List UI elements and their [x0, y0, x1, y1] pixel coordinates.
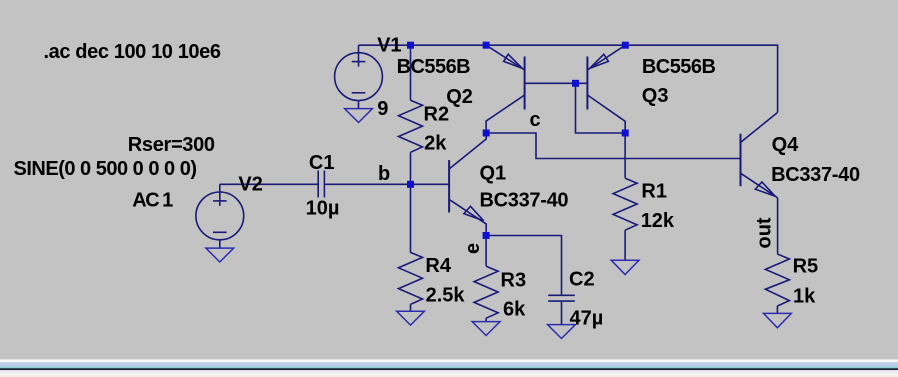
wire node e to C2	[486, 236, 561, 296]
transistor Q2	[486, 45, 524, 133]
svg-text:R4: R4	[425, 255, 451, 277]
svg-text:BC556B: BC556B	[397, 56, 471, 78]
voltage source V1	[335, 45, 383, 108]
svg-text:out: out	[754, 217, 776, 248]
svg-text:Q2: Q2	[446, 86, 473, 108]
svg-text:2k: 2k	[424, 133, 447, 155]
ground (V1)	[345, 109, 373, 123]
svg-text:Q1: Q1	[480, 163, 507, 185]
svg-text:R3: R3	[501, 269, 527, 291]
svg-text:C2: C2	[569, 269, 595, 291]
svg-text:V2: V2	[238, 174, 262, 196]
ground (R3)	[472, 322, 500, 336]
resistor R2	[399, 45, 423, 184]
wire node b to R4	[410, 184, 412, 252]
svg-text:e: e	[462, 243, 484, 254]
junction rail / R2 / V1	[407, 42, 414, 49]
wire Q3 collector to R1	[624, 133, 626, 178]
resistor R1	[613, 178, 637, 260]
wire base tie to Q3 collector	[576, 83, 626, 133]
junction base wire	[572, 80, 579, 87]
wire Q4 emitter to R5 (node out)	[777, 198, 779, 254]
node b junction	[407, 181, 414, 188]
resistor R4	[399, 252, 423, 311]
node c junction	[483, 130, 490, 137]
wire top supply rail	[359, 45, 778, 112]
junction rail / Q2 emitter	[483, 42, 490, 49]
svg-text:C1: C1	[309, 152, 335, 174]
svg-text:6k: 6k	[503, 298, 526, 320]
wire node e to R3	[485, 236, 487, 267]
node e junction	[483, 232, 490, 239]
svg-text:12k: 12k	[641, 210, 675, 232]
junction rail / Q3 emitter	[622, 42, 629, 49]
wire Q2 base to Q3 base	[525, 82, 588, 84]
transistor Q4	[741, 112, 778, 197]
svg-text:Q3: Q3	[642, 85, 669, 107]
svg-text:9: 9	[377, 98, 388, 120]
transistor Q3	[587, 45, 625, 133]
svg-text:AC 1: AC 1	[132, 190, 173, 212]
svg-text:Q4: Q4	[772, 134, 800, 156]
wire node c to Q4 base	[486, 133, 740, 159]
svg-text:b: b	[378, 163, 390, 185]
svg-text:BC556B: BC556B	[642, 56, 716, 78]
resistor R5	[765, 254, 789, 313]
svg-text:BC337-40: BC337-40	[480, 190, 569, 212]
transistor Q1	[449, 133, 486, 236]
ground (R4)	[397, 311, 425, 325]
capacitor C2	[548, 295, 575, 324]
svg-text:V1: V1	[377, 34, 401, 56]
svg-text:R1: R1	[641, 181, 667, 203]
bottom window edge	[0, 359, 898, 377]
svg-text:10µ: 10µ	[306, 198, 340, 220]
ground (C2)	[548, 325, 576, 339]
junction Q3 collector node	[622, 130, 629, 137]
resistor R3	[474, 266, 498, 321]
svg-text:SINE(0 0 500 0 0 0 0): SINE(0 0 500 0 0 0 0)	[14, 158, 198, 180]
ground (R1)	[611, 260, 639, 274]
svg-text:R5: R5	[793, 256, 819, 278]
svg-text:Rser=300: Rser=300	[128, 134, 215, 156]
capacitor C1	[318, 171, 324, 198]
wire C1 to Q1 base (node b)	[324, 183, 449, 185]
wire V2 to C1	[220, 183, 318, 185]
svg-text:BC337-40: BC337-40	[771, 164, 860, 186]
svg-text:c: c	[530, 109, 541, 131]
voltage source V2	[196, 184, 244, 248]
svg-text:1k: 1k	[793, 286, 816, 308]
ground (V2)	[206, 248, 234, 262]
svg-text:2.5k: 2.5k	[426, 285, 466, 307]
svg-text:.ac dec 100 10 10e6: .ac dec 100 10 10e6	[44, 41, 222, 63]
ground (R5)	[764, 313, 792, 327]
svg-text:47µ: 47µ	[570, 307, 604, 329]
